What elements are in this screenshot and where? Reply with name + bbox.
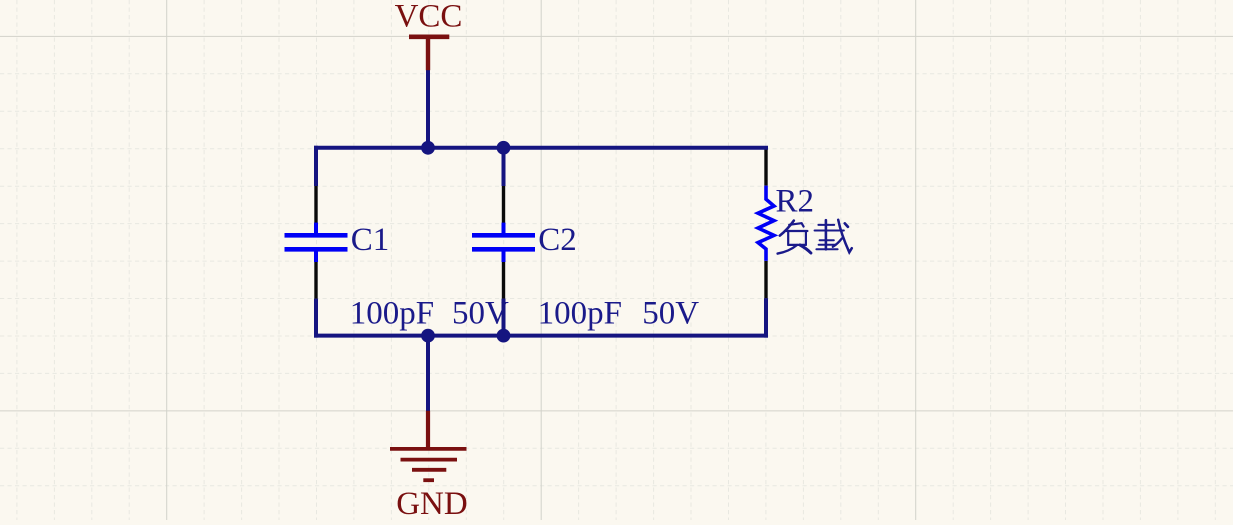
- svg-text:50V: 50V: [642, 295, 699, 331]
- svg-text:C1: C1: [351, 222, 390, 258]
- junction VCC/top rail: [421, 141, 435, 155]
- pin C1.2: [314, 262, 317, 299]
- wire R2 lower stub: [764, 298, 768, 337]
- capacitor C2: [502, 223, 506, 234]
- junction C2/top rail: [497, 141, 511, 155]
- wire C2 upper stub: [502, 148, 506, 186]
- wire C2 lower stub: [502, 299, 506, 336]
- ground symbol GND: [390, 411, 467, 480]
- pin R2.1: [764, 148, 767, 186]
- resistor R2: [758, 186, 774, 261]
- pin R2.2: [764, 261, 767, 299]
- capacitor C1: [314, 223, 318, 234]
- junction C2/bottom rail: [497, 329, 511, 343]
- svg-text:50V: 50V: [452, 295, 509, 331]
- pin C2.1: [502, 186, 505, 223]
- junction GND/bottom rail: [421, 329, 435, 343]
- wire C1 upper stub: [314, 146, 318, 186]
- power symbol VCC: [409, 37, 449, 70]
- svg-text:R2: R2: [776, 184, 815, 220]
- pin C1.1: [314, 186, 317, 223]
- svg-text:100pF: 100pF: [538, 295, 622, 331]
- svg-text:VCC: VCC: [395, 0, 463, 35]
- wire C1 lower stub: [314, 299, 318, 338]
- wire VCC to top rail: [426, 70, 430, 148]
- comment R2 负载 (load): [778, 220, 852, 254]
- wire bottom rail: [314, 334, 768, 338]
- svg-text:C2: C2: [538, 222, 577, 258]
- svg-text:GND: GND: [396, 486, 468, 520]
- wire bottom rail to GND: [426, 336, 430, 411]
- pin C2.2: [502, 262, 505, 299]
- wire top rail: [314, 146, 768, 150]
- svg-text:100pF: 100pF: [350, 295, 434, 331]
